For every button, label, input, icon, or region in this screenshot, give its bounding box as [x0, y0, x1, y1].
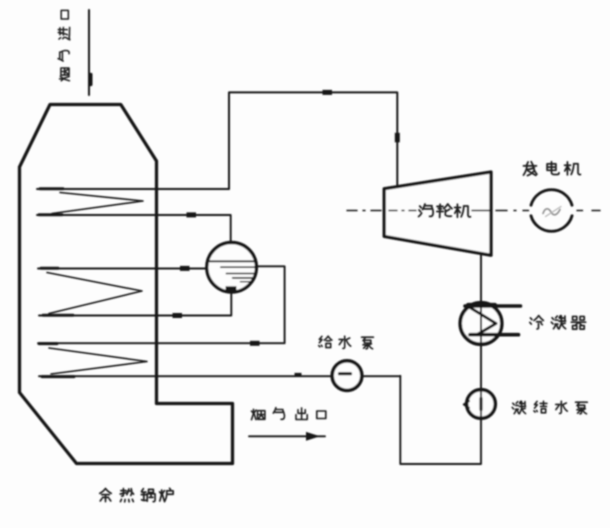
feed pump [332, 361, 362, 391]
label: feed water pump 给水泵 [319, 336, 374, 349]
label: flue gas inlet 烟气进口 (rotated) [58, 10, 70, 80]
label: condenser 冷凝器 [530, 316, 586, 330]
turbine U1 [384, 172, 491, 255]
wire: downcomer from drum bottom (line4) [39, 291, 231, 318]
wire: feed water line (line6) [39, 373, 400, 377]
wire: condensate line to pump [480, 344, 482, 390]
wire: main steam pipe to turbine [229, 90, 400, 189]
drum (steam drum) [207, 242, 257, 292]
economizer coil zigzag [49, 348, 147, 374]
condensate pump [464, 390, 496, 419]
label: steam turbine 汽轮机 [419, 204, 471, 217]
wire: evaporator riser line (line3) to drum left [38, 266, 206, 271]
label: waste heat boiler 余热锅炉 [100, 488, 173, 502]
label: generator 发电机 [523, 162, 580, 176]
wire: flue gas inlet pipe [89, 10, 91, 95]
label: condensate pump 凝结水泵 [512, 401, 587, 414]
label: flue gas outlet 烟气出口 [251, 408, 325, 420]
evaporator coil zigzag [47, 273, 142, 314]
wire: superheater inlet line (line2) to drum top [37, 212, 231, 243]
flue gas outlet arrow [249, 432, 325, 441]
boiler outline [20, 105, 233, 464]
wire: turbine exhaust to condenser [480, 254, 482, 303]
generator [531, 190, 572, 232]
condenser [460, 303, 520, 345]
wire: superheater outlet line (line1) [37, 188, 229, 190]
wire: economizer outlet (line5) to drum right [38, 266, 285, 346]
superheater coil zigzag [52, 193, 143, 214]
shaft centre line (dash-dot) [347, 210, 600, 212]
wire: condensate return to feed pump [400, 376, 481, 464]
